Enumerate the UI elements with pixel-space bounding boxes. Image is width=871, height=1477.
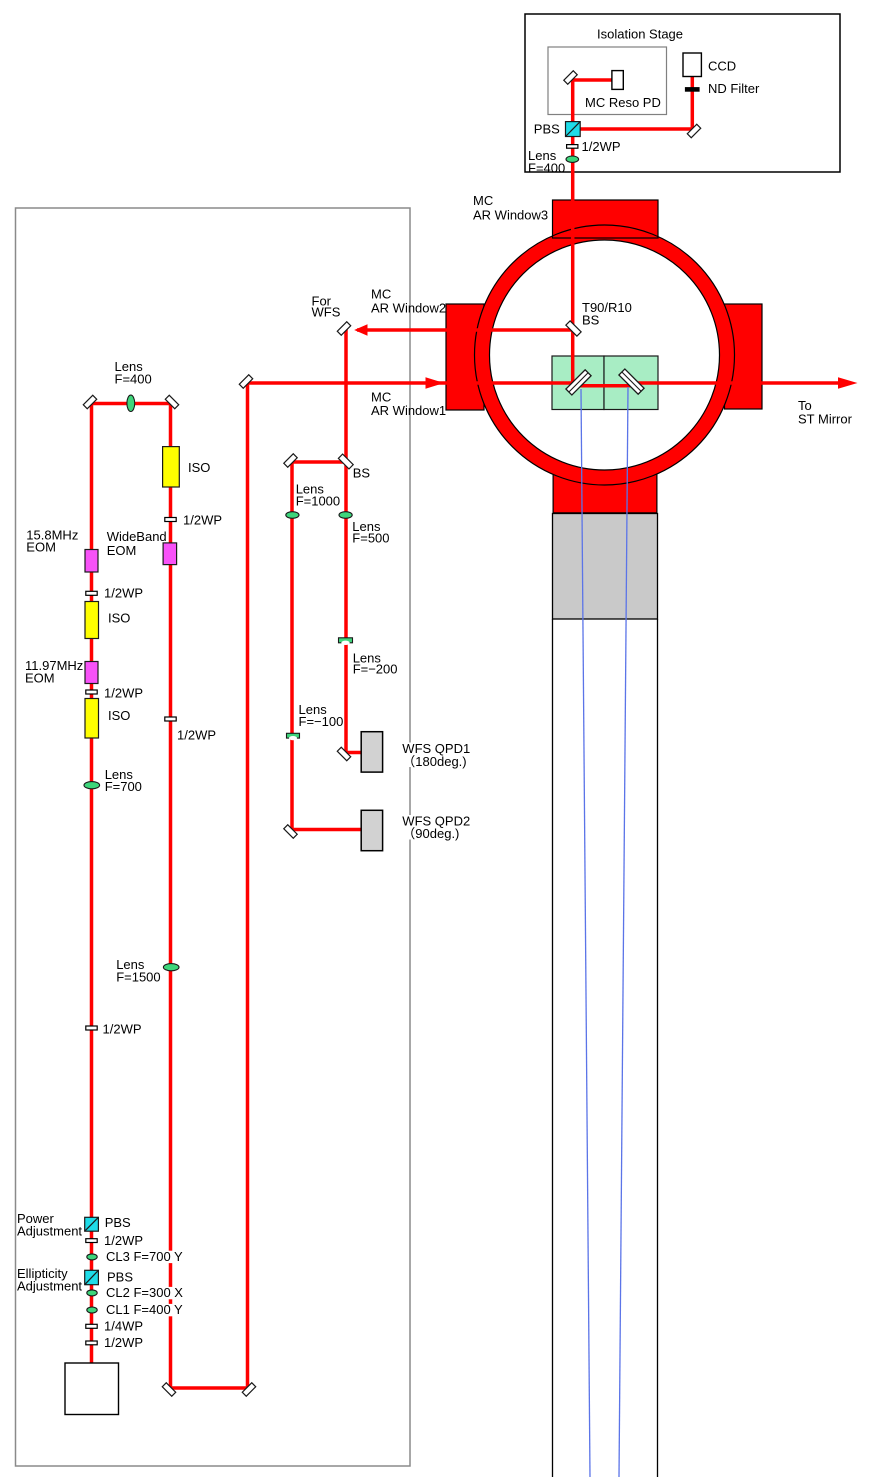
- svg-text:WideBand: WideBand: [107, 529, 167, 544]
- beam: MC vertical pickoff up to isolation stage: [571, 78, 575, 383]
- svg-text:1/2WP: 1/2WP: [104, 686, 143, 701]
- svg-text:CCD: CCD: [708, 59, 736, 74]
- lens F=400 isolation stage: [566, 156, 579, 162]
- arrowhead into MC window1: [426, 377, 445, 389]
- beam: main horizontal into MC: [246, 381, 579, 385]
- beam tube right wall: [657, 619, 659, 1477]
- beam: WFS vertical down to BS: [344, 328, 348, 463]
- svg-text:F=1500: F=1500: [116, 970, 160, 985]
- svg-text:AR Window3: AR Window3: [473, 208, 548, 223]
- CL3 lens: [87, 1254, 97, 1260]
- WFS mirror left of BS: [284, 454, 297, 467]
- svg-text:（180deg.): （180deg.): [402, 754, 466, 769]
- svg-text:EOM: EOM: [25, 670, 55, 685]
- steering mirror third column top: [239, 375, 252, 388]
- mirror to WFS QPD2: [284, 825, 297, 838]
- svg-text:F=−100: F=−100: [299, 714, 344, 729]
- steering mirror corner top-right of lens F=400 line: [165, 395, 178, 408]
- left optics table panel: [16, 208, 411, 1466]
- steering mirror bottom-left corner: [162, 1383, 175, 1396]
- svg-text:PBS: PBS: [105, 1215, 131, 1230]
- svg-text:1/2WP: 1/2WP: [177, 727, 216, 742]
- svg-text:F=1000: F=1000: [296, 493, 340, 508]
- svg-text:EOM: EOM: [26, 539, 56, 554]
- MC AR Window3 top block: [553, 200, 659, 238]
- chamber inner circle outline: [490, 240, 720, 470]
- arrowhead For WFS: [354, 324, 367, 335]
- 1/2WP middle column upper: [165, 518, 176, 522]
- svg-text:AR Window2: AR Window2: [371, 301, 446, 316]
- For WFS pickoff mirror: [337, 322, 350, 335]
- svg-text:PBS: PBS: [107, 1270, 133, 1285]
- MC Reso PD: [612, 71, 623, 90]
- lens F=-100 concave: [287, 733, 300, 740]
- svg-text:Adjustment: Adjustment: [17, 1279, 82, 1294]
- svg-text:CL3 F=700 Y: CL3 F=700 Y: [106, 1249, 183, 1264]
- lens F=700: [84, 782, 100, 789]
- 1/2WP power adjustment: [86, 1239, 97, 1243]
- beam: top horizontal lens F=400: [90, 402, 172, 406]
- MC chamber left window block (AR Window2/1): [446, 304, 484, 410]
- ISO middle column: [163, 447, 180, 487]
- beam: BS horizontal: [290, 460, 347, 464]
- beam: CCD vertical: [691, 77, 695, 131]
- svg-text:F=−200: F=−200: [353, 662, 398, 677]
- 1/2WP middle column lower: [165, 717, 176, 721]
- mirror above PBS in isolation stage: [564, 71, 577, 84]
- svg-text:BS: BS: [353, 465, 371, 480]
- MC flat mirror holder (left green): [552, 356, 604, 410]
- 1/4WP: [86, 1324, 97, 1328]
- blue beam from flat mirror 1: [581, 389, 590, 1477]
- svg-text:F=700: F=700: [105, 779, 142, 794]
- MC flat mirror 1: [566, 370, 591, 395]
- lens F=500: [339, 512, 352, 519]
- svg-text:MC: MC: [371, 287, 391, 302]
- svg-text:1/2WP: 1/2WP: [104, 1233, 143, 1248]
- beam: WFS line A down: [290, 460, 294, 831]
- svg-text:ST Mirror: ST Mirror: [798, 412, 853, 427]
- svg-text:EOM: EOM: [107, 543, 137, 558]
- beam: out to ST mirror: [632, 381, 841, 385]
- MC Reso PD inner box: [548, 47, 667, 115]
- PBS power adjustment: [85, 1217, 99, 1231]
- svg-text:PBS: PBS: [534, 122, 560, 137]
- svg-text:1/2WP: 1/2WP: [104, 1335, 143, 1350]
- ND Filter: [685, 87, 700, 92]
- svg-text:MC Reso PD: MC Reso PD: [585, 95, 661, 110]
- svg-text:ISO: ISO: [188, 460, 210, 475]
- lens F=-200 concave: [339, 638, 353, 645]
- MC chamber bottom neck block: [553, 470, 657, 513]
- label WFS QPD2: [401, 814, 471, 842]
- svg-text:WFS: WFS: [312, 305, 341, 320]
- CL2 lens: [87, 1290, 97, 1296]
- PBS ellipticity adjustment: [85, 1270, 99, 1284]
- arrowhead to ST mirror: [838, 377, 858, 388]
- beam: WFS line B down: [344, 460, 348, 754]
- 15.8MHz EOM: [85, 550, 98, 573]
- 1/2WP isolation stage: [567, 145, 578, 149]
- gray stack block below chamber: [553, 514, 658, 620]
- beam: bottom horizontal: [169, 1386, 249, 1390]
- beam: to WFS QPD2: [290, 828, 364, 832]
- MC chamber right window block: [725, 304, 763, 409]
- 11.97MHz EOM: [85, 662, 98, 684]
- WideBand EOM: [163, 543, 177, 565]
- mirror below CCD: [687, 124, 700, 137]
- label WFS QPD1: [401, 741, 471, 769]
- WFS BS: [338, 454, 353, 469]
- svg-text:Adjustment: Adjustment: [17, 1224, 82, 1239]
- lens F=1500: [163, 964, 179, 971]
- beam: to MC Reso PD: [571, 78, 613, 82]
- svg-text:（90deg.): （90deg.): [402, 826, 459, 841]
- svg-text:1/2WP: 1/2WP: [104, 585, 143, 600]
- svg-text:F=500: F=500: [352, 530, 389, 545]
- svg-text:CL2 F=300 X: CL2 F=300 X: [106, 1285, 183, 1300]
- WFS QPD2: [361, 810, 382, 850]
- ISO left upper: [85, 602, 99, 639]
- blue beam from flat mirror 2: [619, 387, 628, 1477]
- T90/R10 BS: [566, 321, 581, 336]
- MC flat mirror holder (right green): [604, 356, 658, 410]
- beam: PBS to CCD mirror horizontal: [579, 127, 694, 131]
- beam tube left wall: [552, 619, 554, 1477]
- ISO left lower: [85, 699, 99, 739]
- laser head box: [65, 1363, 119, 1415]
- CCD: [683, 53, 701, 77]
- lens F=400 left panel (vertical ellipse): [127, 395, 135, 411]
- beam: offset segment between MC flat mirrors: [579, 384, 632, 388]
- WFS QPD1: [361, 732, 382, 772]
- 1/2WP below 15.8MHz EOM: [86, 591, 97, 595]
- label CL3 F=700 Y: [104, 1249, 189, 1264]
- 1/2WP left column mid: [86, 1026, 97, 1030]
- svg-text:F=400: F=400: [115, 371, 152, 386]
- label CL1 F=400 Y: [104, 1302, 188, 1317]
- svg-text:Isolation Stage: Isolation Stage: [597, 27, 683, 42]
- mirror to WFS QPD1: [337, 747, 350, 760]
- svg-text:ISO: ISO: [108, 610, 130, 625]
- svg-text:MC: MC: [473, 193, 493, 208]
- svg-text:1/2WP: 1/2WP: [103, 1021, 142, 1036]
- svg-text:ISO: ISO: [108, 708, 130, 723]
- label CL2 F=300 X: [104, 1285, 188, 1300]
- beam: to WFS QPD1: [344, 751, 364, 755]
- beam: third column up: [246, 381, 250, 1389]
- svg-text:1/2WP: 1/2WP: [183, 512, 222, 527]
- lens F=1000: [286, 512, 299, 519]
- MC vacuum chamber ring: [475, 225, 735, 485]
- svg-text:CL1 F=400 Y: CL1 F=400 Y: [106, 1302, 183, 1317]
- beam: For WFS horizontal: [357, 328, 573, 332]
- svg-text:1/4WP: 1/4WP: [104, 1319, 143, 1334]
- 1/2WP below 11.97MHz EOM: [86, 690, 97, 694]
- steering mirror bottom-right corner: [242, 1383, 255, 1396]
- svg-text:ND Filter: ND Filter: [708, 81, 760, 96]
- PBS isolation stage: [566, 122, 581, 137]
- svg-text:1/2WP: 1/2WP: [582, 139, 621, 154]
- svg-text:F=400: F=400: [528, 161, 565, 176]
- steering mirror corner top-left of lens F=400 line: [83, 395, 96, 408]
- svg-text:BS: BS: [582, 313, 600, 328]
- beam: laser up left column: [90, 402, 94, 1364]
- CL1 lens: [87, 1307, 97, 1313]
- chamber outer circle outline: [475, 225, 735, 485]
- isolation stage outer box: [525, 14, 840, 172]
- MC flat mirror 2: [619, 369, 644, 394]
- svg-text:AR Window1: AR Window1: [371, 403, 446, 418]
- 1/2WP above laser: [86, 1341, 97, 1345]
- beam: middle column down: [169, 402, 173, 1390]
